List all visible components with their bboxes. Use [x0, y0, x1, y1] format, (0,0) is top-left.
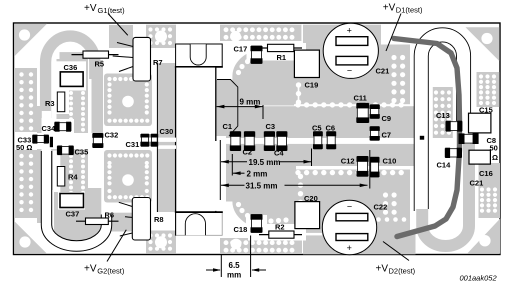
svg-text:C14: C14	[437, 160, 452, 169]
svg-text:C31: C31	[126, 140, 140, 149]
gray sliver left of input trace	[37, 106, 42, 223]
vias right edge block lower	[480, 187, 484, 191]
white split right of pad strip	[301, 25, 303, 45]
capacitor C2 a	[230, 132, 241, 151]
svg-text:C17: C17	[234, 45, 248, 54]
vias left upper pad block	[19, 72, 23, 76]
vias C20 left column	[298, 174, 303, 179]
svg-text:C9: C9	[382, 114, 392, 123]
svg-text:R4: R4	[68, 173, 78, 182]
svg-text:C12: C12	[341, 156, 355, 165]
svg-text:C1: C1	[223, 122, 233, 131]
resistor R7 with leader lines	[113, 37, 151, 81]
copper corner triangle top-right	[466, 27, 500, 61]
node 50 ohm output	[490, 144, 499, 163]
capacitor C9	[370, 105, 380, 119]
solder mark on hairpin left leg	[420, 136, 424, 140]
svg-text:D1(test): D1(test)	[396, 6, 423, 15]
copper corner triangle top-left	[14, 24, 47, 57]
source ground pad upper	[104, 74, 152, 127]
top drain via pad strip	[220, 25, 302, 41]
mask body right edge below y140	[215, 141, 217, 211]
capacitor C33	[33, 135, 49, 144]
svg-text:R5: R5	[95, 60, 105, 69]
capacitor C8	[459, 133, 479, 144]
capacitor C10	[370, 157, 380, 177]
output line pour upper (POUR-B)	[226, 106, 414, 138]
svg-text:−: −	[347, 202, 352, 212]
output line pour lower (POUR-C)	[226, 144, 414, 166]
svg-text:D2(test): D2(test)	[389, 267, 416, 276]
svg-text:C34: C34	[42, 124, 57, 133]
clearance around C37	[58, 192, 85, 210]
svg-text:C13: C13	[436, 111, 450, 120]
capacitor C36	[60, 72, 83, 87]
capacitor C11	[356, 103, 369, 122]
svg-text:+V: +V	[84, 263, 97, 274]
input feed white stripe left	[15, 133, 110, 149]
svg-text:+V: +V	[383, 2, 396, 13]
svg-text:C19: C19	[305, 81, 319, 90]
svg-text:C21: C21	[470, 179, 484, 188]
vias gate pad bottom	[148, 233, 152, 237]
svg-text:C2: C2	[243, 148, 253, 157]
capacitor C14	[445, 148, 461, 158]
gate pad top small (with vias)	[146, 25, 176, 48]
dimension 31.5 mm	[221, 150, 370, 190]
svg-text:C30: C30	[160, 127, 174, 136]
output hairpin outline outer (right)	[414, 28, 470, 211]
svg-text:+: +	[347, 243, 352, 253]
node +VD1(test)	[383, 2, 423, 51]
capacitor C15	[469, 113, 491, 133]
svg-text:C10: C10	[383, 157, 397, 166]
vias bottom drain pad strip	[224, 240, 229, 245]
vias drain pour D corner arc	[236, 202, 241, 207]
air wire (dark)	[394, 39, 460, 237]
white trace below C32	[92, 148, 103, 188]
left edge via pad block lower	[15, 150, 37, 218]
svg-text:Ω: Ω	[492, 153, 498, 162]
svg-text:9 mm: 9 mm	[240, 98, 261, 107]
white zone C18	[246, 215, 267, 236]
right loop bottom gray U band	[422, 135, 469, 246]
svg-text:C3: C3	[266, 122, 276, 131]
vias drain pour A right cols	[391, 55, 396, 60]
svg-text:R6: R6	[105, 211, 115, 220]
capacitor C3	[264, 132, 275, 151]
svg-text:C32: C32	[105, 130, 119, 139]
capacitor C4	[276, 132, 287, 151]
svg-text:R1: R1	[277, 53, 287, 62]
transistor flange bottom with U notch	[175, 212, 223, 236]
white separation line above output pours	[294, 104, 410, 106]
svg-text:R8: R8	[154, 215, 164, 224]
resistor R8 with leader lines	[119, 198, 151, 241]
left edge via pad block upper	[15, 68, 37, 132]
gate block left edge line	[156, 63, 158, 212]
capacitor C22 electrolytic	[322, 200, 376, 254]
svg-text:C20: C20	[304, 194, 318, 203]
svg-text:mm: mm	[227, 271, 241, 280]
capacitor C34	[55, 122, 71, 132]
svg-text:C36: C36	[64, 63, 78, 72]
svg-text:50 Ω: 50 Ω	[16, 143, 32, 152]
white line left of C22	[294, 233, 322, 236]
vias source pad upper ring	[107, 77, 111, 81]
output trace white stripe	[222, 138, 470, 144]
source ground pad lower	[104, 150, 152, 203]
white zone around C30/C31 caps	[103, 127, 157, 151]
svg-text:C8: C8	[487, 136, 497, 145]
svg-text:19.5 mm: 19.5 mm	[249, 158, 281, 167]
VG1 feed pad	[109, 25, 133, 48]
C37/R6 island inside bottom U	[54, 188, 101, 243]
capacitor C17	[251, 46, 263, 64]
svg-text:−: −	[347, 65, 352, 75]
white zone R1	[248, 43, 306, 61]
svg-text:G2(test): G2(test)	[97, 267, 125, 276]
copper corner triangle bottom-right	[467, 219, 500, 254]
svg-text:R7: R7	[153, 58, 163, 67]
capacitor C20	[295, 202, 320, 229]
svg-text:6.5: 6.5	[229, 261, 241, 270]
drain lead outline	[217, 80, 238, 137]
svg-text:+V: +V	[376, 263, 389, 274]
white zone R2	[248, 224, 306, 241]
capacitor C31 b	[151, 134, 159, 146]
svg-text:001aak052: 001aak052	[460, 274, 498, 283]
vias row right of C22	[376, 217, 381, 222]
svg-text:C33: C33	[18, 135, 32, 144]
drain lead polygon	[217, 80, 238, 137]
PCB board outline	[14, 23, 501, 255]
gate lead block	[157, 63, 176, 212]
dimension 6.5 mm	[206, 236, 266, 280]
clearance around R3	[52, 89, 69, 114]
capacitor C35	[57, 146, 73, 156]
svg-text:G1(test): G1(test)	[98, 6, 126, 15]
vias gate bias island columns	[69, 91, 73, 95]
transistor flange top with U notch	[175, 44, 223, 67]
via mark near C33	[50, 137, 53, 147]
white separation line below output pours	[296, 166, 410, 169]
capacitor C2 b	[244, 132, 255, 151]
dimension 19.5 mm	[221, 149, 312, 167]
capacitor C13	[446, 121, 462, 132]
svg-text:C21: C21	[376, 67, 390, 76]
vias drain pour D top edge row	[295, 170, 300, 175]
copper corner triangle bottom-left	[14, 221, 47, 254]
drain pour top extension	[303, 25, 381, 46]
svg-text:C22: C22	[374, 203, 388, 212]
svg-text:+V: +V	[84, 3, 97, 14]
R5/C36 junction pad	[60, 52, 88, 61]
input arch trace (top-left, gray band)	[46, 36, 95, 118]
gate bias island left-center	[50, 59, 88, 190]
output pour merge strip	[226, 160, 296, 172]
vias gate pad top	[148, 27, 152, 31]
dimension reference line right of body	[219, 140, 221, 200]
vias drain pour D right cols	[383, 192, 388, 197]
vias C13 strip	[434, 90, 438, 94]
resistor R5	[72, 51, 119, 58]
svg-text:C35: C35	[75, 148, 89, 157]
transistor body	[176, 67, 216, 212]
capacitor C30 gate stripes	[158, 138, 176, 149]
bottom drain via pad strip	[220, 238, 302, 254]
svg-text:R3: R3	[45, 99, 55, 108]
capacitor C31 a	[140, 134, 149, 146]
svg-text:C18: C18	[234, 225, 248, 234]
capacitor C37	[60, 194, 84, 208]
resistor R6	[76, 218, 119, 225]
svg-text:C6: C6	[326, 124, 336, 133]
svg-text:2 mm: 2 mm	[247, 169, 268, 178]
clearance around R4 (trace C35-R4-C37)	[53, 151, 61, 193]
capacitor C16	[469, 150, 490, 164]
svg-text:C7: C7	[382, 131, 392, 140]
gate feed strip to C32	[92, 60, 104, 133]
svg-text:C16: C16	[479, 169, 493, 178]
svg-text:C15: C15	[479, 106, 493, 115]
capacitor C5	[313, 132, 323, 149]
right edge via block upper	[477, 72, 500, 107]
svg-text:31.5 mm: 31.5 mm	[246, 181, 278, 190]
input U trace bottom-left (black outlined white band)	[47, 151, 107, 246]
dimension 2 mm	[232, 154, 267, 178]
output hairpin outline inner	[428, 42, 456, 209]
drain pour bottom extension	[303, 233, 416, 254]
drain pour top (POUR-A)	[232, 45, 410, 106]
capacitor C19	[294, 50, 319, 77]
vias right edge block upper	[479, 74, 483, 78]
vias C19 left column	[296, 82, 301, 87]
white zone C17	[247, 43, 268, 59]
capacitor C6	[326, 132, 336, 149]
svg-text:C4: C4	[274, 149, 284, 158]
resistor R4	[57, 167, 65, 187]
clearance around C34	[52, 119, 74, 134]
node +VG2(test)	[84, 230, 126, 276]
resistor R3	[57, 92, 65, 112]
vias drain pour A bottom edge row	[295, 102, 300, 107]
capacitor C32	[92, 133, 103, 147]
vias source pad lower ring	[107, 153, 111, 157]
svg-text:C37: C37	[66, 210, 80, 219]
resistor R2	[259, 231, 302, 238]
capacitor C21 electrolytic	[323, 23, 378, 78]
clearance around C36	[55, 61, 86, 90]
VG2 feed pad	[109, 213, 132, 232]
vias top drain pad strip	[224, 27, 229, 32]
resistor R1	[259, 44, 302, 51]
dimension 9 mm	[217, 98, 263, 119]
white split line left of C19 column	[298, 83, 300, 105]
capacitor C7	[370, 127, 380, 141]
capacitor C12	[357, 156, 369, 176]
svg-text:R2: R2	[275, 223, 285, 232]
capacitor C18	[251, 215, 263, 233]
right edge via block lower	[479, 163, 501, 218]
svg-text:C11: C11	[354, 94, 367, 103]
drain pour bottom (POUR-D)	[226, 169, 410, 233]
node +VG1(test)	[84, 3, 128, 35]
svg-text:C5: C5	[312, 124, 322, 133]
vias drain pour A corner arc	[236, 70, 241, 75]
C13 via strip inside loop	[433, 87, 453, 140]
node +VD2(test)	[376, 242, 416, 276]
gate pad bottom small	[146, 231, 176, 254]
svg-text:+: +	[347, 26, 352, 36]
node 50 ohm input	[16, 143, 32, 152]
